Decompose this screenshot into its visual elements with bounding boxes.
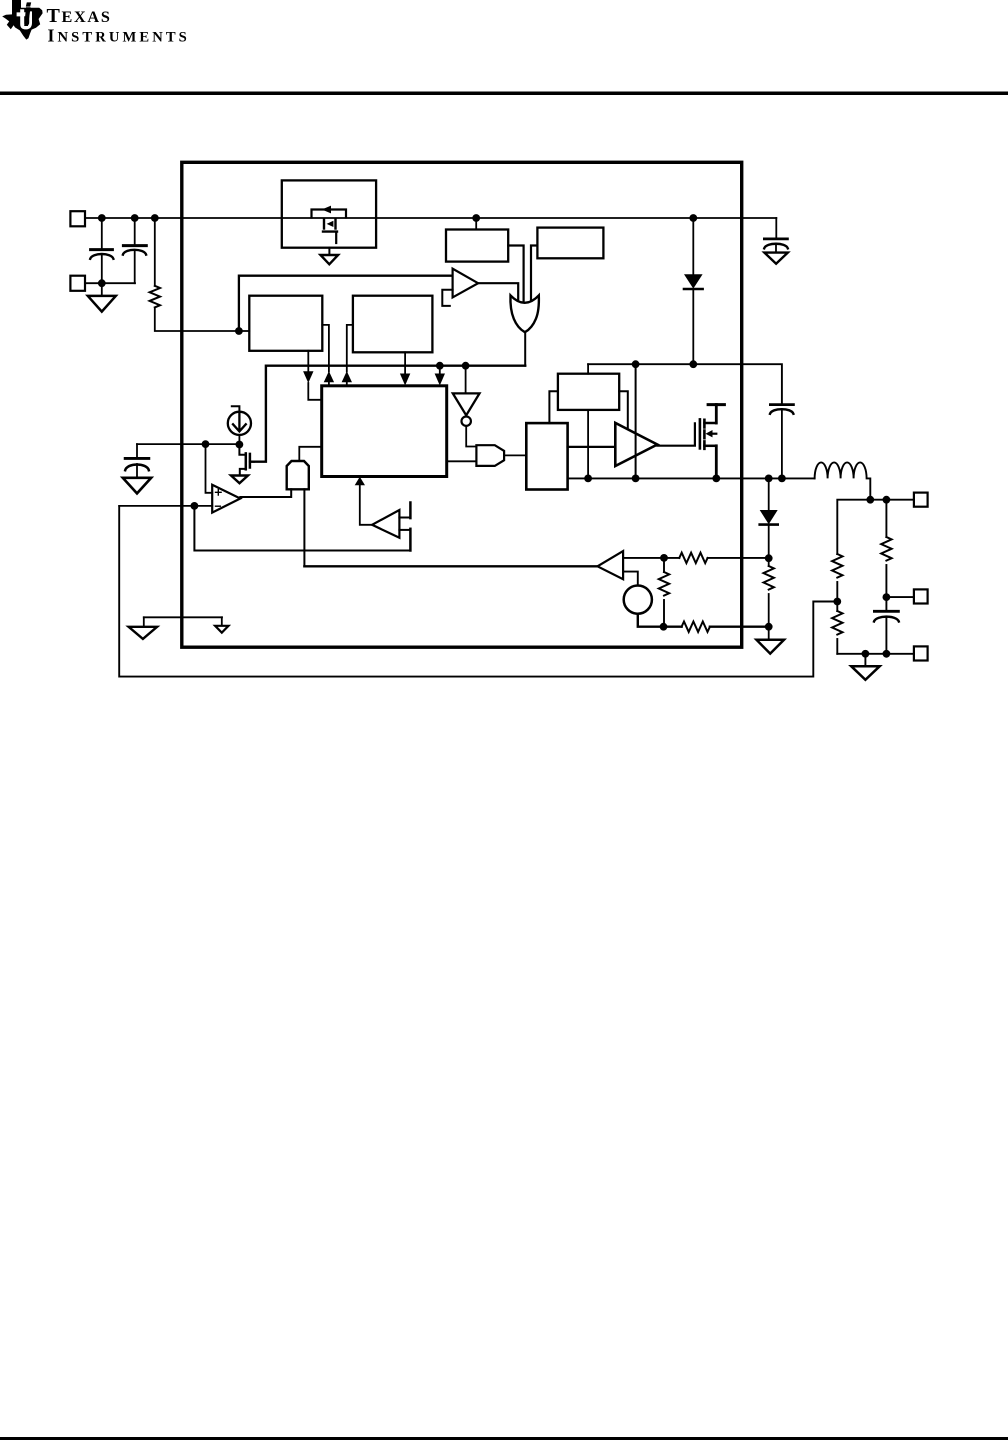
block box-B xyxy=(537,228,603,259)
wire boxB to OR xyxy=(531,246,537,305)
node cboot dot xyxy=(778,475,786,483)
node sense dot xyxy=(235,327,243,335)
wire box1 down-arrow into logic xyxy=(303,351,322,400)
inverter INV1 xyxy=(453,366,480,447)
wire ramp top stub xyxy=(587,364,589,374)
node vout dot1 xyxy=(866,496,874,504)
wire bus down-arrow into logic xyxy=(435,366,445,386)
wire mid terminal xyxy=(886,596,914,598)
node VIN dot2 xyxy=(131,214,139,222)
wire comp cap rail xyxy=(137,443,239,445)
wire arch to EA-out bus xyxy=(303,489,305,566)
node bus dot2 xyxy=(462,362,470,370)
wire driver input xyxy=(568,446,616,448)
wire EA output xyxy=(304,565,597,567)
wire arch to logic xyxy=(299,447,321,461)
wire ref to ilim rail xyxy=(638,614,664,627)
capacitor C2 xyxy=(123,218,146,283)
ground LDO xyxy=(321,248,339,265)
wire opamp plus input xyxy=(206,444,213,493)
transistor slope-FET xyxy=(399,503,410,551)
wire opamp out to arch xyxy=(240,489,291,497)
capacitor C-comp outside xyxy=(125,444,149,478)
node cs dot xyxy=(660,554,668,562)
op-amp EA1 xyxy=(212,485,240,513)
node isrc dot xyxy=(236,441,244,449)
node comp dot xyxy=(202,440,210,448)
node sw dot2 xyxy=(632,475,640,483)
diode D-vcc xyxy=(684,218,703,364)
node snub dot xyxy=(765,623,773,631)
wire UVLO out to OR xyxy=(478,283,518,302)
ground input xyxy=(88,283,116,311)
wire cs minus input xyxy=(623,572,638,586)
resistor R-snub xyxy=(764,558,774,627)
node VIN dot5 xyxy=(689,214,697,222)
wire out-gnd rail xyxy=(837,653,914,655)
resistor R-out-sense xyxy=(881,500,891,597)
resistor R-cs-v xyxy=(659,558,669,627)
resistor R-ilim-h xyxy=(664,622,769,632)
block driver-logic box xyxy=(526,423,567,489)
node minus dot xyxy=(191,502,199,510)
wire box2 up-arrow xyxy=(342,325,353,386)
node gnd-in dot xyxy=(98,279,106,287)
wire gate-drive bus xyxy=(250,366,525,462)
resistor R-fb-top xyxy=(832,554,842,602)
header rule xyxy=(0,92,1008,96)
wire vcc-out rail xyxy=(588,364,782,403)
resistor R-fb-bot xyxy=(832,602,842,654)
ground comp cap xyxy=(123,478,151,494)
capacitor C-vcc xyxy=(764,239,788,253)
node ilim dot xyxy=(660,623,668,631)
wire logic to AND1 xyxy=(447,460,477,462)
block box-A xyxy=(446,230,508,262)
wire VOUT rail xyxy=(837,500,914,554)
buffer slope-comp xyxy=(372,510,399,538)
wire UVLO comp input xyxy=(239,276,453,331)
ground AGND inside xyxy=(144,617,229,632)
wire cs plus input xyxy=(623,557,664,559)
gate AND1 xyxy=(476,445,504,466)
node dout dot1 xyxy=(765,475,773,483)
wire feedback loop xyxy=(119,506,837,677)
footer rule xyxy=(0,1437,1008,1440)
block box2 xyxy=(353,296,433,353)
gate OR xyxy=(510,295,538,332)
wire SW rail xyxy=(568,477,815,479)
node VIN dot3 xyxy=(151,214,159,222)
node dout dot2 xyxy=(765,554,773,562)
resistor R-sense-in xyxy=(150,218,239,331)
wire UVLO ref hook xyxy=(442,290,452,306)
IC boundary xyxy=(182,162,742,647)
comparator UVLO xyxy=(453,269,479,298)
node vccd dot xyxy=(689,360,697,368)
transistor mini-NMOS clamp xyxy=(239,445,254,476)
wire box2 down-arrow xyxy=(400,352,410,385)
wire OR out xyxy=(524,333,526,365)
block ramp box xyxy=(558,374,619,410)
wire gate lead xyxy=(657,423,695,445)
inductor L1 xyxy=(815,462,871,499)
terminal VOUT xyxy=(914,493,928,507)
source V-ref xyxy=(624,586,652,614)
capacitor C-out xyxy=(874,597,899,654)
wire slope feedback xyxy=(194,506,410,551)
node vout dot2 xyxy=(883,496,891,504)
node VIN dot1 xyxy=(98,214,106,222)
wire VCC cap branch xyxy=(775,218,777,238)
wire stub to box1 xyxy=(239,330,249,332)
wire ramp bottom stub xyxy=(587,410,589,479)
node hv top dot xyxy=(632,360,640,368)
wire boxA top stub xyxy=(475,218,477,230)
node ognd dot1 xyxy=(862,650,870,658)
current source I1 xyxy=(228,406,251,444)
capacitor C1 xyxy=(90,218,113,283)
block logic box xyxy=(322,386,447,477)
svg-text:TEXAS: TEXAS xyxy=(47,5,112,27)
ground VCC cap xyxy=(764,253,787,264)
comparator CS-amp xyxy=(598,551,624,579)
gate PWM-latch arch xyxy=(287,461,309,489)
wire AND1 out xyxy=(504,454,526,456)
terminal GND-in xyxy=(70,276,85,291)
transistor mini-PMOS in LDO xyxy=(312,206,347,243)
block box1 xyxy=(249,296,322,351)
node fb dot xyxy=(833,598,841,606)
wire box1 up-arrow xyxy=(322,325,334,386)
ground snub xyxy=(757,627,785,654)
ground PGND outside xyxy=(129,617,158,639)
wire boxA to OR xyxy=(508,246,523,306)
ground mini-NMOS xyxy=(231,476,248,484)
node VIN dot4 xyxy=(472,214,480,222)
node ognd dot2 xyxy=(883,650,891,658)
wire ramp bracket right xyxy=(619,391,628,428)
amp gate-driver xyxy=(615,423,657,466)
transistor power NMOS xyxy=(700,405,725,479)
capacitor C-boot xyxy=(770,405,793,479)
terminal MID xyxy=(914,589,928,603)
wire HV sense vertical xyxy=(635,364,637,478)
terminal OGND xyxy=(914,646,928,660)
node bus dot1 xyxy=(436,362,444,370)
diode D-out xyxy=(760,478,778,558)
TI logo bug xyxy=(2,0,190,46)
wire ramp bracket left xyxy=(549,391,558,423)
resistor R-cs-h xyxy=(664,553,769,563)
svg-text:INSTRUMENTS: INSTRUMENTS xyxy=(48,26,190,46)
block top-LDO box xyxy=(282,180,376,247)
node fet source dot xyxy=(712,475,720,483)
terminal VIN xyxy=(70,211,85,226)
node mid dot xyxy=(883,593,891,601)
wire VIN top rail xyxy=(85,217,776,219)
node sw dot1 xyxy=(584,475,592,483)
wire opamp minus input xyxy=(119,505,212,507)
wire input ground rail xyxy=(85,282,135,284)
wire slope up-arrow into logic xyxy=(355,477,372,525)
ground output xyxy=(851,654,880,680)
